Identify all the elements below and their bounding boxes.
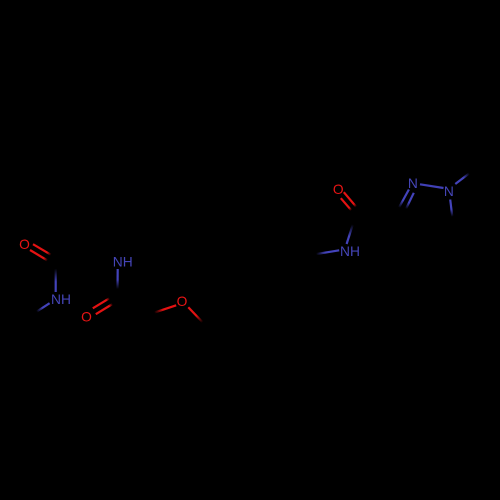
carbonyl C1=O1 double bond lower line xyxy=(30,250,48,261)
svg-text:NH: NH xyxy=(113,255,133,270)
svg-text:O: O xyxy=(19,237,30,252)
svg-text:N: N xyxy=(444,184,454,199)
wire ether O left bond xyxy=(153,305,177,313)
wire N1-C bond down xyxy=(450,200,452,220)
carbonyl C2=O2 double bond lower line xyxy=(96,304,113,314)
carbonyl C3=O4 double bond left line xyxy=(341,198,352,210)
svg-text:O: O xyxy=(177,294,188,309)
carbonyl C2=O2 double bond upper line xyxy=(93,298,110,308)
svg-text:NH: NH xyxy=(51,292,71,307)
pyrazole N2=C3 double bond left line xyxy=(399,190,409,208)
svg-text:NH: NH xyxy=(340,244,360,259)
svg-text:N: N xyxy=(408,176,418,191)
wire N1-CH3 bond up right xyxy=(455,173,470,184)
pyrazole N2=C3 double bond right line xyxy=(406,193,414,209)
wire N-C3carbonyl bond up xyxy=(347,213,357,245)
carbonyl C1=O1 double bond upper line xyxy=(33,244,51,255)
wire N1-N2 bond (solid blue) xyxy=(420,184,444,188)
carbonyl C3=O4 double bond right line xyxy=(344,192,356,207)
wire C1-N bond (vertical, fades to carbon) xyxy=(55,265,57,293)
wire N-CH2 bond left of amide 3 xyxy=(309,250,340,255)
svg-text:O: O xyxy=(333,182,344,197)
wire ether O right bond xyxy=(188,307,206,325)
wire N-CH3 bond (fades to methyl carbon) xyxy=(33,303,50,314)
wire N-C2 bond (vertical down, fades to carbon) xyxy=(116,269,118,294)
svg-text:O: O xyxy=(81,309,92,324)
